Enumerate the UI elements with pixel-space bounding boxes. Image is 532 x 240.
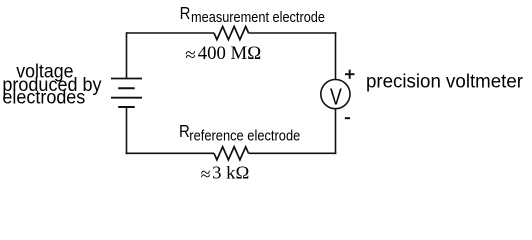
svg-text:≈: ≈ (201, 164, 211, 184)
svg-text:3 kΩ: 3 kΩ (212, 163, 249, 183)
voltmeter - polarity mark (345, 117, 350, 119)
svg-text:reference electrode: reference electrode (189, 128, 300, 144)
wire: bottom rail left segment (battery to R reference) (126, 152, 214, 154)
wire: top rail right segment (R measurement to voltmeter +) (249, 32, 337, 34)
wire: left vertical, battery - plate down to bottom rail (126, 107, 128, 154)
svg-text:electrodes: electrodes (2, 88, 85, 109)
wire: bottom rail right segment (R reference to voltmeter -) (249, 152, 337, 154)
resistor R measurement electrode (zigzag) (214, 27, 249, 40)
svg-text:R: R (180, 3, 191, 23)
svg-text:400 MΩ: 400 MΩ (198, 43, 262, 64)
voltmeter U1: circle body (321, 80, 350, 109)
battery plate 2 (short) (118, 87, 135, 89)
voltmeter + polarity mark (345, 70, 355, 79)
svg-text:precision voltmeter: precision voltmeter (366, 71, 523, 93)
svg-text:R: R (179, 121, 190, 141)
wire: left vertical, top rail down to battery + plate (126, 32, 128, 78)
battery: voltage produced by electrodes - plate 1 (long, +) (111, 78, 142, 80)
battery plate 3 (long) (111, 97, 142, 99)
svg-text:≈: ≈ (185, 45, 195, 66)
battery plate 4 (short, -) (118, 106, 135, 108)
svg-text:measurement electrode: measurement electrode (191, 10, 325, 26)
resistor R reference electrode (zigzag) (214, 147, 249, 160)
svg-text:V: V (330, 84, 342, 110)
wire: top rail left segment (battery + to R measurement) (127, 32, 215, 34)
wire: right vertical, top rail down to voltmeter top (335, 32, 337, 79)
wire: right vertical, voltmeter bottom down to bottom rail (335, 109, 337, 155)
